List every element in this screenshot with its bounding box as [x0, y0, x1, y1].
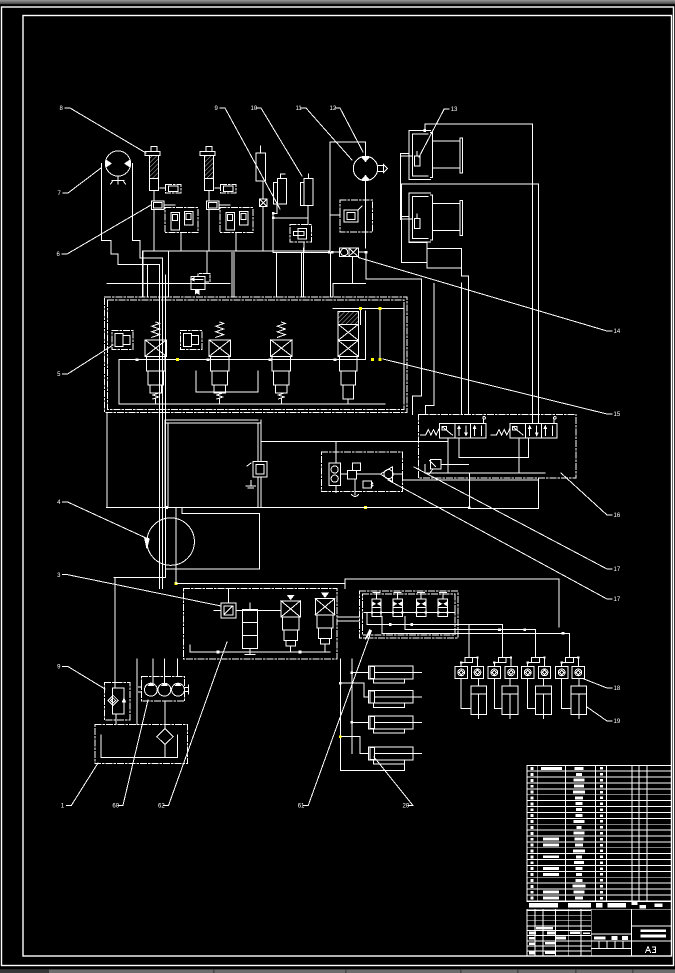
svg-text:14: 14	[614, 329, 621, 335]
yellow junction dots	[175, 307, 382, 585]
accumulator A2	[300, 174, 313, 205]
horizontal cylinder feed rails	[339, 659, 405, 771]
pilot check valve 3	[488, 666, 500, 678]
leader label 4	[57, 500, 149, 548]
oil tank box	[95, 724, 188, 763]
lower valve box dash-dot	[183, 589, 336, 659]
cylinder feed wires right	[401, 124, 539, 424]
svg-text:13: 13	[451, 107, 458, 113]
svg-text:16: 16	[614, 513, 621, 519]
leader label 11	[296, 106, 353, 160]
svg-text:62: 62	[158, 804, 165, 810]
pilot valve bank dash-dot	[360, 591, 458, 638]
leader label 61	[298, 630, 372, 810]
horizontal cylinder 3	[368, 716, 421, 733]
leader label 15	[383, 359, 621, 418]
wires below gauge pair	[333, 252, 422, 297]
accumulator collector rail	[273, 142, 365, 254]
component box with gauge and cone	[322, 452, 403, 492]
gauge-valve pair 14	[331, 248, 367, 256]
BOM text blobs	[530, 767, 603, 900]
motor 12 circle	[353, 156, 387, 180]
leader label 20	[374, 757, 413, 810]
pilot check valve 8	[572, 666, 584, 678]
leader label 19	[587, 707, 621, 725]
small valve 3	[214, 603, 236, 618]
leader label 10	[251, 106, 303, 176]
title block text marks	[529, 927, 666, 954]
pilot supply rail	[176, 579, 559, 627]
bank left drop to return rail	[106, 412, 108, 507]
pilot unit 1	[371, 593, 382, 617]
leader label 12	[330, 106, 364, 152]
three-stack valve	[242, 603, 257, 655]
triple pump unit	[138, 677, 188, 702]
leader label 17a	[414, 467, 621, 573]
cylinder lower web	[402, 243, 468, 415]
bank spool valve V2	[209, 322, 230, 399]
leader label 1	[61, 763, 98, 810]
svg-text:20: 20	[403, 804, 410, 810]
svg-text:61: 61	[298, 804, 305, 810]
filter 9 box	[105, 578, 130, 725]
pilot reducer left of V1	[112, 330, 133, 349]
pilot manifold wires	[364, 613, 570, 635]
leader label 17b	[388, 480, 621, 603]
horizontal cylinder 2	[368, 690, 421, 707]
leader label 14	[358, 258, 620, 336]
bank spool valve V4 tall	[338, 311, 358, 399]
main valve bank inner dash-dot box	[108, 300, 405, 409]
bank spool valve V3	[271, 322, 292, 399]
leader label 60	[112, 700, 148, 810]
bottom grey scrollbar band	[0, 969, 675, 973]
pilot unit 3	[416, 593, 427, 617]
small check box	[259, 181, 267, 251]
return loop rectangle	[165, 420, 261, 507]
accumulator charge valve box	[290, 225, 312, 248]
tall reservoir rect	[256, 146, 265, 181]
motor drain valve box	[340, 181, 373, 248]
lower box internal wires	[190, 589, 360, 654]
leader label 16	[561, 473, 621, 519]
solenoid valve SV2	[491, 417, 557, 438]
pump group 8 (left unit)	[145, 146, 198, 251]
pump 7 supply wires	[102, 164, 163, 265]
cylinder 13 upper	[409, 131, 463, 180]
tank feed verticals	[137, 659, 177, 729]
pilot unit 4	[437, 593, 448, 617]
leader label 5	[57, 345, 113, 378]
leader label 9	[57, 665, 105, 690]
leader label 3	[57, 573, 221, 606]
reducing valve mid	[340, 463, 360, 496]
feeder wires into bank top	[142, 248, 330, 297]
bank spool valve V1	[145, 322, 166, 399]
relief valve mid	[107, 273, 230, 294]
svg-text:11: 11	[296, 106, 303, 112]
leader label 18	[584, 679, 621, 692]
svg-text:12: 12	[330, 106, 337, 112]
pilot check valve 4	[505, 666, 517, 678]
step wires to solenoid box	[413, 279, 435, 415]
pilot cylinder 3	[528, 679, 552, 719]
bridges above check valves	[460, 625, 579, 667]
leader label 7	[58, 168, 102, 197]
bank top distribution rail	[333, 309, 404, 404]
main valve bank outer dash-dot box	[105, 297, 408, 412]
pilot check valve 2	[471, 666, 483, 678]
bank internal drain wires	[119, 311, 385, 404]
svg-text:19: 19	[614, 719, 621, 725]
pilot reducer left of V2	[181, 330, 202, 349]
solenoid box dash-dot	[418, 414, 576, 478]
BOM parts table	[527, 765, 672, 900]
solenoid box internal wires	[425, 438, 545, 509]
mid rails to solenoid box	[261, 442, 538, 481]
accumulator drain wires	[272, 204, 308, 252]
pilot cylinder 1	[461, 679, 486, 719]
pilot check valve 6	[538, 666, 550, 678]
joint side loop	[166, 508, 260, 570]
svg-text:17: 17	[614, 597, 621, 603]
relief valve in loop	[246, 462, 267, 488]
pilot cylinder 4	[562, 679, 587, 719]
bottom collector rail of pump groups	[143, 251, 330, 297]
svg-text:10: 10	[251, 106, 258, 112]
horizontal cylinder 4	[368, 747, 421, 764]
lower box spool A	[281, 595, 300, 646]
pilot check valve 7	[556, 666, 568, 678]
pump 7 circle with flow arrows and strainer	[105, 151, 130, 184]
verticals through rotary joint	[114, 258, 176, 589]
svg-text:15: 15	[614, 412, 621, 418]
pilot check valve 5	[522, 666, 534, 678]
drain valve small	[363, 481, 373, 488]
duplex filter in box	[329, 442, 340, 493]
lower box spool B	[315, 593, 334, 644]
pilot cylinder 2	[494, 679, 518, 719]
leader label 13	[419, 107, 458, 157]
svg-text:17: 17	[614, 567, 621, 573]
top grey window band	[0, 0, 675, 4]
solenoid valve SV1	[420, 417, 486, 438]
pilot unit 2	[392, 593, 403, 617]
accumulator A1	[274, 174, 287, 204]
leader label 8	[60, 106, 147, 153]
pump group 6 (right unit)	[200, 146, 253, 251]
long return rail	[106, 507, 538, 510]
pilot check valve 1	[455, 666, 467, 678]
svg-text:60: 60	[112, 804, 119, 810]
horizontal cylinder 1	[368, 666, 421, 683]
cylinder lower	[409, 193, 463, 242]
leader label 6	[57, 205, 152, 258]
leader label 62	[158, 642, 227, 810]
rotary joint 4 circle	[147, 518, 194, 565]
tilted valve 17	[429, 460, 469, 475]
BOM header filled row	[527, 901, 672, 909]
title block grid	[527, 909, 672, 956]
svg-text:18: 18	[614, 686, 621, 692]
leader label 9 top	[215, 106, 281, 209]
check cone 17	[357, 467, 403, 482]
bank main gallery line	[119, 358, 366, 361]
